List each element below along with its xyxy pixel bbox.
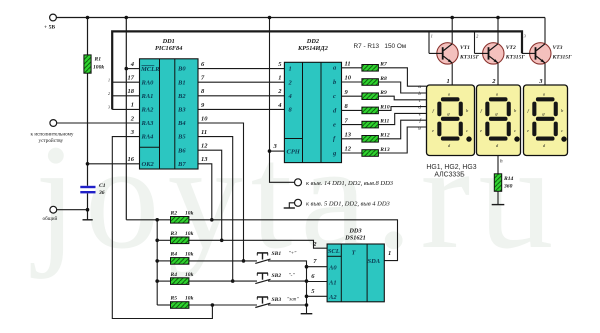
svg-text:A0: A0: [328, 265, 337, 272]
resistor R4: [157, 252, 193, 265]
svg-text:R4: R4: [170, 272, 178, 278]
svg-text:c: c: [514, 128, 516, 133]
svg-text:1: 1: [278, 75, 281, 82]
wire R1 down to C1: [87, 73, 89, 186]
junction rail/R1: [86, 16, 90, 20]
svg-text:КТ315Г: КТ315Г: [459, 55, 480, 61]
svg-text:CPH: CPH: [287, 149, 301, 156]
terminal to pin 14 DD1 DD2 pin8 DD3: [295, 179, 394, 187]
svg-text:"+": "+": [289, 251, 298, 257]
display HG1: [427, 78, 475, 156]
svg-text:B6: B6: [177, 147, 186, 154]
svg-text:B5: B5: [177, 134, 186, 141]
svg-text:A2: A2: [328, 294, 337, 301]
svg-text:"зап": "зап": [287, 297, 299, 303]
svg-text:10: 10: [345, 75, 352, 82]
resistor R4b: [157, 272, 193, 285]
svg-text:10k: 10k: [185, 296, 194, 302]
wires DD1 B0-B3 to DD2: [198, 61, 284, 109]
svg-text:B0: B0: [177, 66, 186, 73]
svg-text:17: 17: [128, 75, 135, 82]
wire SB1 to A0: [268, 261, 307, 267]
svg-text:e: e: [432, 128, 434, 133]
resistor R3: [157, 231, 193, 244]
svg-text:1: 1: [431, 34, 433, 39]
wire MCLR stub: [126, 68, 139, 70]
wire RA4 to SB3 loop: [112, 137, 212, 319]
svg-text:R3: R3: [170, 231, 178, 237]
wire B6 down to SCL row: [198, 150, 222, 240]
svg-text:10: 10: [201, 115, 208, 122]
resistor R5: [157, 296, 193, 309]
junction OK2 row: [86, 162, 90, 166]
button SB1: [255, 251, 297, 264]
svg-text:13: 13: [345, 132, 352, 139]
wire R4b to SB2: [189, 280, 257, 282]
wires DD2 outputs to segment resistors: [342, 61, 362, 154]
svg-text:11: 11: [201, 129, 207, 136]
svg-text:КТ315Г: КТ315Г: [552, 55, 573, 61]
svg-text:R7 - R13 150 Ом: R7 - R13 150 Ом: [354, 43, 407, 50]
svg-text:PIC16F84: PIC16F84: [155, 45, 182, 52]
svg-text:10k: 10k: [185, 211, 194, 217]
svg-text:КР514ИД2: КР514ИД2: [297, 45, 328, 52]
svg-text:h: h: [500, 159, 503, 165]
svg-text:R12: R12: [379, 133, 390, 139]
svg-text:g: g: [418, 125, 421, 131]
svg-text:устройству: устройству: [39, 137, 64, 144]
resistor R14: [494, 174, 513, 192]
display HG3: [524, 78, 568, 156]
svg-text:R7: R7: [379, 62, 387, 68]
svg-text:+ 5В: + 5В: [44, 25, 55, 31]
svg-text:SCL: SCL: [328, 248, 340, 255]
svg-text:R11: R11: [379, 119, 389, 125]
ground bar R14: [492, 204, 505, 206]
resistor R1: [84, 55, 104, 73]
svg-text:R1: R1: [94, 57, 102, 63]
svg-text:OK2: OK2: [142, 161, 155, 168]
resistor R13: [362, 147, 390, 156]
wire SB3 to gnd rail: [268, 304, 307, 306]
wire A1 stub: [307, 281, 328, 283]
wire B7 down to SDA row: [198, 164, 212, 220]
display HG2: [477, 78, 521, 156]
svg-text:"-": "-": [289, 273, 296, 279]
wire B4 down to SB2 row: [198, 123, 244, 261]
resistor R2: [170, 211, 194, 224]
svg-text:к исполнительному: к исполнительному: [31, 132, 74, 138]
svg-text:d: d: [418, 105, 421, 111]
svg-text:MCLR: MCLR: [140, 66, 160, 73]
wire OK2 stub: [88, 163, 140, 165]
svg-text:3: 3: [524, 34, 526, 39]
svg-text:VT3: VT3: [553, 45, 563, 51]
svg-text:e: e: [333, 122, 336, 129]
wire SCL net: [189, 240, 327, 248]
wire R4 to SB1: [189, 260, 257, 262]
svg-text:11: 11: [345, 61, 351, 68]
svg-text:R10: R10: [379, 104, 390, 110]
svg-text:10k: 10k: [185, 272, 194, 278]
svg-text:B2: B2: [177, 93, 186, 100]
svg-text:3: 3: [108, 105, 110, 110]
IC DD2 KR514ID2: [284, 38, 341, 163]
svg-text:B7: B7: [177, 161, 186, 168]
wire R9 to display pin c: [378, 96, 426, 100]
IC DD3 DS1621: [311, 227, 391, 301]
ground bar DD3: [301, 313, 313, 315]
svg-text:R8: R8: [379, 76, 387, 82]
watermark: [30, 114, 561, 280]
svg-text:RA4: RA4: [141, 134, 155, 141]
resistor R10: [362, 104, 390, 113]
svg-text:RA2: RA2: [141, 107, 155, 114]
wire B5 down to SB1 row: [198, 137, 233, 282]
wire RA1 stub: [108, 91, 140, 96]
svg-text:RA1: RA1: [141, 93, 154, 100]
svg-text:R4: R4: [170, 252, 178, 258]
pullup rail vertical: [156, 220, 158, 305]
transistor VT2: [475, 18, 526, 86]
svg-text:R2: R2: [170, 211, 178, 217]
button SB3: [255, 297, 299, 308]
svg-text:SB3: SB3: [272, 297, 282, 303]
svg-text:RA0: RA0: [141, 79, 155, 86]
svg-text:SB2: SB2: [272, 273, 282, 279]
svg-text:10k: 10k: [185, 252, 194, 258]
wire R12 to display pin f: [378, 120, 426, 139]
svg-text:B1: B1: [177, 79, 186, 86]
svg-text:2: 2: [108, 91, 110, 96]
svg-text:1: 1: [108, 77, 110, 82]
ground end bar: [83, 219, 93, 221]
svg-text:16: 16: [128, 156, 135, 163]
resistor R9: [362, 90, 387, 99]
svg-text:общий: общий: [43, 215, 58, 222]
wire +5V to CPH pin 3: [270, 18, 296, 183]
svg-text:DD1: DD1: [162, 38, 175, 45]
junction MCLR: [125, 67, 129, 71]
svg-text:B4: B4: [177, 120, 186, 127]
svg-text:HG1, HG2, HG3: HG1, HG2, HG3: [426, 164, 476, 171]
svg-text:АЛС333Б: АЛС333Б: [434, 172, 465, 179]
svg-text:R5: R5: [170, 296, 178, 302]
svg-text:DS1621: DS1621: [344, 235, 366, 242]
wire +5V to R1: [87, 18, 89, 55]
svg-text:12: 12: [201, 143, 208, 150]
wire HG2 dp to R14: [498, 156, 503, 174]
DD3 ground rail: [306, 267, 308, 314]
svg-text:C1: C1: [99, 183, 106, 189]
svg-text:A1: A1: [328, 279, 337, 286]
svg-text:DD3: DD3: [348, 227, 361, 234]
wire RA2 stub: [108, 105, 140, 110]
wire +5V to MCLR vertical: [125, 18, 127, 220]
wire R7 to display pin a: [378, 68, 426, 86]
svg-text:B3: B3: [177, 107, 186, 114]
wire R10 to display pin d: [378, 107, 426, 111]
displays label: [426, 164, 476, 179]
svg-text:100k: 100k: [93, 65, 104, 71]
svg-text:2: 2: [476, 34, 478, 39]
svg-text:SB1: SB1: [272, 251, 282, 257]
svg-text:e: e: [527, 128, 529, 133]
wire SB2 to gnd rail: [268, 280, 307, 282]
svg-text:1: 1: [388, 250, 391, 257]
+5V top rail wire: [56, 17, 545, 19]
wire SDA net: [189, 220, 398, 261]
wire A2 stub: [307, 295, 328, 297]
capacitor C1: [80, 183, 105, 196]
wire R11 to display pin e: [378, 113, 426, 124]
svg-text:1: 1: [447, 78, 450, 85]
svg-text:b: b: [418, 91, 421, 97]
svg-text:DD2: DD2: [306, 38, 319, 45]
svg-text:e: e: [480, 128, 482, 133]
junction rail/MCLR: [125, 16, 129, 20]
wire A0 stub: [307, 266, 328, 268]
svg-text:2: 2: [491, 78, 496, 85]
svg-text:VT1: VT1: [460, 45, 470, 51]
svg-text:SDA: SDA: [368, 258, 381, 265]
svg-text:18: 18: [128, 88, 135, 95]
svg-text:1: 1: [289, 66, 292, 73]
wire C1 to ground bar: [87, 193, 89, 219]
resistor R8: [362, 76, 387, 85]
IC DD1 PIC16F84: [128, 38, 199, 169]
svg-text:КТ315Г: КТ315Г: [505, 55, 526, 61]
svg-text:1: 1: [131, 102, 134, 109]
junction SB3 row: [211, 303, 215, 307]
svg-text:R13: R13: [379, 147, 390, 153]
svg-text:c: c: [466, 128, 468, 133]
wire RA0 stub: [108, 77, 140, 82]
resistor R7: [362, 62, 387, 71]
display pin letters: [418, 84, 422, 131]
wire R5 to SB3: [189, 304, 257, 306]
svg-text:36: 36: [98, 190, 105, 196]
transistor VT1: [429, 18, 480, 86]
svg-text:3: 3: [538, 78, 543, 85]
svg-text:a: a: [418, 84, 421, 90]
wire R13 to display pin g: [378, 127, 426, 153]
svg-text:10k: 10k: [185, 231, 194, 237]
wire feed to pullups: [126, 219, 170, 221]
svg-text:13: 13: [201, 156, 208, 163]
button SB2: [255, 273, 295, 284]
common terminal (obschiy): [43, 206, 88, 222]
bus to digit drivers: [112, 31, 522, 109]
svg-text:360: 360: [503, 184, 513, 190]
svg-text:к выв. 14 DD1, DD2, выв.8 DD3: к выв. 14 DD1, DD2, выв.8 DD3: [306, 180, 394, 187]
wire R14 to ground: [497, 191, 499, 204]
transistor VT3: [522, 18, 572, 86]
svg-text:к выв. 5 DD1, DD2, выв 4 DD3: к выв. 5 DD1, DD2, выв 4 DD3: [306, 200, 391, 207]
terminal to pin 5 DD1 DD2 pin4 DD3 with ground: [284, 199, 391, 208]
svg-text:12: 12: [345, 146, 352, 153]
svg-text:RA3: RA3: [141, 120, 155, 127]
svg-text:c: c: [561, 128, 563, 133]
resistor R12: [362, 133, 390, 142]
svg-text:VT2: VT2: [506, 45, 516, 51]
svg-text:R14: R14: [503, 176, 514, 182]
terminal to actuator device: [31, 120, 140, 144]
junction common terminal: [86, 208, 90, 212]
wire R8 to display pin b: [378, 82, 426, 93]
+5V terminal: [50, 14, 57, 21]
svg-text:c: c: [333, 93, 336, 100]
svg-text:R9: R9: [379, 90, 387, 96]
resistor R11: [362, 119, 390, 128]
